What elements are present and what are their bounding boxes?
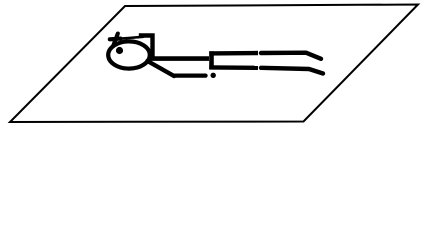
upper arm bent at elbow	[141, 36, 153, 58]
torso	[149, 56, 209, 61]
forearm over head	[120, 37, 143, 39]
body block top edge segment 2 and upper leg	[261, 53, 321, 59]
body block bottom edge segment 1	[209, 65, 258, 70]
lower arm diagonal	[148, 61, 175, 76]
ground plane parallelogram	[10, 5, 418, 123]
hand dash	[211, 73, 216, 78]
lower arm horizontal	[174, 73, 206, 77]
eye	[116, 47, 123, 54]
head	[108, 41, 150, 68]
hand fingers above head	[110, 34, 121, 46]
body block top edge segment 1	[209, 51, 258, 56]
body block bottom edge segment 2 and lower leg	[261, 68, 323, 74]
body block left edge	[209, 51, 214, 69]
